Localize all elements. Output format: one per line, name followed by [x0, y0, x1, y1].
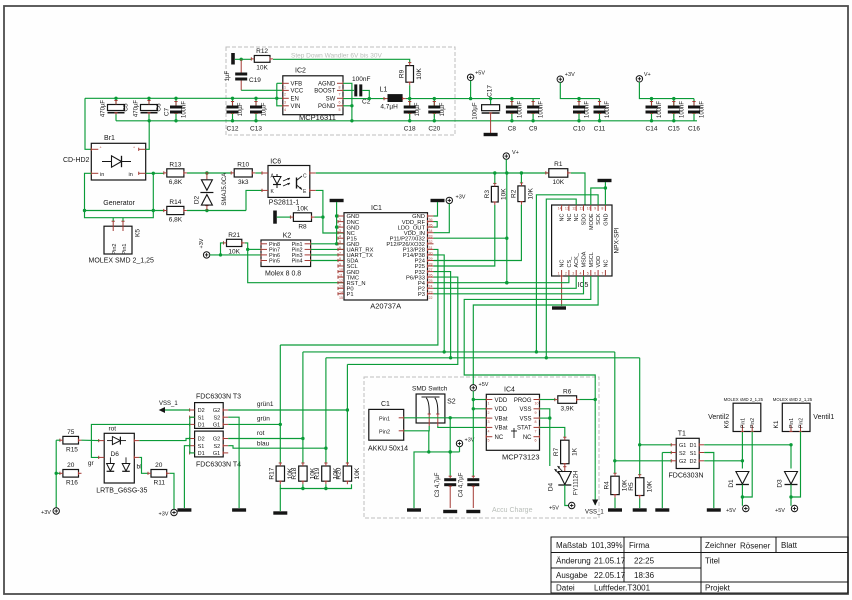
svg-text:VFB: VFB: [291, 82, 303, 88]
wire STAT to R7: [540, 427, 565, 437]
wire R11 to +3V: [170, 473, 174, 509]
svg-text:+: +: [100, 145, 102, 149]
resistor R9: [398, 63, 423, 86]
svg-text:6: 6: [535, 439, 537, 443]
svg-text:D2: D2: [198, 437, 205, 443]
switch S2 SMD Switch: [412, 386, 456, 427]
svg-text:FDC6303N T4: FDC6303N T4: [196, 462, 241, 469]
svg-text:FDC6303N T3: FDC6303N T3: [196, 394, 241, 401]
svg-text:R12: R12: [256, 48, 268, 55]
svg-text:D2: D2: [194, 195, 201, 204]
svg-text:100nF: 100nF: [352, 76, 370, 83]
svg-text:PGND: PGND: [318, 104, 336, 110]
wire VFB-EN-VIN tie: [277, 83, 283, 106]
svg-text:100nF: 100nF: [539, 101, 545, 118]
capacitor C11: [594, 99, 612, 133]
svg-text:Accu Charge: Accu Charge: [492, 507, 533, 514]
svg-text:C1: C1: [381, 401, 390, 408]
resistor R16: [60, 462, 82, 477]
svg-text:10K: 10K: [646, 480, 653, 492]
svg-text:in: in: [129, 172, 133, 178]
svg-text:Generator: Generator: [103, 200, 135, 207]
power V+ caps: [636, 72, 651, 82]
svg-text:R19: R19: [314, 467, 321, 479]
svg-text:GND: GND: [603, 213, 609, 225]
resistor R12: [251, 48, 273, 71]
wire to generator node: [152, 173, 154, 210]
svg-text:C12: C12: [227, 126, 239, 133]
svg-text:Step Down Wandler 6V bis 30V: Step Down Wandler 6V bis 30V: [291, 53, 382, 60]
ground T3 S2: [232, 508, 246, 511]
svg-text:D1: D1: [198, 423, 205, 429]
capacitor C3: [435, 472, 456, 508]
resistor R13: [164, 161, 187, 186]
wire VDD_RF LDO_OUT jumper: [434, 222, 438, 228]
wire V+ cap rail: [639, 82, 694, 100]
svg-text:+5V: +5V: [479, 382, 489, 388]
ground IC5 bottom: [552, 306, 566, 309]
wire P14 fan: [434, 255, 445, 352]
wire R4 gnd: [614, 498, 616, 508]
wire stub: [189, 416, 191, 418]
svg-text:CD-HD2: CD-HD2: [63, 157, 90, 164]
wire T3S1 T4D1: [190, 417, 195, 453]
svg-text:V+: V+: [644, 72, 651, 78]
wire R13 to R10: [187, 171, 231, 174]
connector K5 MOLEX SMD 2_1,25: [89, 221, 154, 264]
wire rot line: [228, 438, 303, 440]
wire C3 net: [449, 418, 452, 476]
pole symbol feedback node: [231, 53, 235, 65]
svg-text:Firma: Firma: [629, 541, 650, 550]
wire K2 pin4 to SDA: [311, 260, 344, 262]
svg-text:Ventil1: Ventil1: [813, 414, 834, 421]
svg-text:7: 7: [601, 272, 603, 276]
svg-text:SW: SW: [326, 97, 336, 103]
power +5V K6: [726, 505, 749, 514]
svg-text:1K: 1K: [572, 447, 579, 456]
wire R4 top: [614, 461, 616, 473]
svg-text:R8: R8: [298, 224, 307, 231]
wire R3 to P25: [434, 205, 495, 266]
svg-text:Pin2: Pin2: [379, 429, 390, 435]
node VSS_1 left arrow: [159, 401, 179, 413]
svg-text:Pin1: Pin1: [789, 418, 795, 428]
wire gate B vert: [638, 358, 641, 447]
section box Accu Charge: [364, 377, 599, 518]
capacitor C17: [473, 85, 500, 133]
svg-text:STAT: STAT: [517, 426, 532, 432]
svg-text:7: 7: [339, 92, 341, 96]
wire ctrl gruen1 vert: [346, 364, 349, 463]
svg-text:6: 6: [594, 272, 596, 276]
svg-text:3: 3: [572, 272, 574, 276]
IC IC4 MCP73123: [486, 387, 539, 462]
svg-text:D3: D3: [777, 479, 784, 488]
wire R12 to R9 top: [273, 59, 410, 62]
svg-text:VCC: VCC: [291, 89, 304, 95]
svg-text:R14: R14: [169, 199, 181, 206]
wire MSCL VSS_1 net: [464, 276, 597, 505]
wire S2 gnd b: [661, 453, 663, 509]
svg-text:6,8K: 6,8K: [169, 179, 183, 186]
svg-text:VDD: VDD: [495, 407, 508, 413]
bridge rectifier Br1 CD-HD2: [63, 135, 146, 180]
capacitor C16: [688, 99, 706, 133]
svg-text:C20: C20: [428, 126, 440, 133]
op-amp IC2 MCP16311: [283, 68, 343, 122]
ground T4 S1: [177, 508, 191, 511]
resistor R3: [484, 183, 508, 205]
svg-text:C15: C15: [668, 126, 680, 133]
svg-text:100nF: 100nF: [605, 101, 611, 118]
svg-text:A20737A: A20737A: [370, 302, 401, 311]
svg-text:10µF: 10µF: [238, 102, 244, 116]
svg-text:G1: G1: [213, 451, 220, 457]
resistor R20: [336, 463, 361, 484]
svg-text:6: 6: [339, 100, 341, 104]
svg-text:T1: T1: [678, 431, 686, 438]
svg-text:PS2811-1: PS2811-1: [269, 200, 300, 207]
svg-text:C3 4,7µF: C3 4,7µF: [435, 472, 441, 497]
wire gnd to pin8: [604, 182, 607, 205]
svg-text:+5V: +5V: [475, 70, 485, 76]
wire gnd stub3: [337, 226, 338, 228]
wire C2 to SW node: [362, 90, 369, 98]
svg-text:10K: 10K: [256, 64, 268, 71]
svg-text:14: 14: [558, 207, 562, 211]
svg-text:MODE: MODE: [589, 213, 595, 230]
wire K2 pin1 to IC1: [311, 242, 344, 245]
svg-text:VBat: VBat: [495, 426, 508, 432]
wire R10 to IC6 A: [255, 172, 262, 174]
svg-text:G2: G2: [679, 459, 686, 465]
svg-text:10K: 10K: [553, 179, 565, 186]
power +5V accu: [470, 382, 489, 391]
svg-text:C18: C18: [404, 126, 416, 133]
svg-text:C14: C14: [646, 126, 658, 133]
svg-text:C9: C9: [529, 126, 538, 133]
svg-text:4,7µH: 4,7µH: [380, 104, 398, 111]
svg-text:21.05.17: 21.05.17: [594, 557, 626, 566]
wire V+ net down: [505, 173, 508, 284]
svg-text:2: 2: [284, 92, 286, 96]
diode D1: [728, 472, 749, 488]
svg-text:100µF: 100µF: [473, 102, 479, 119]
svg-text:D4: D4: [548, 482, 555, 491]
wire +3V to VDD_IN: [434, 204, 450, 233]
transistor T3 body: [190, 403, 229, 429]
svg-text:+3V: +3V: [41, 510, 51, 516]
svg-text:VDD: VDD: [495, 398, 508, 404]
node VSS_1 arrow: [585, 500, 604, 516]
svg-text:R21: R21: [228, 232, 240, 239]
svg-text:CS_: CS_: [567, 256, 573, 268]
svg-text:FY1112H: FY1112H: [574, 471, 580, 495]
wire P11 row: [434, 237, 507, 239]
svg-text:grün1: grün1: [257, 401, 274, 408]
svg-text:+5V: +5V: [775, 508, 785, 514]
svg-text:C6: C6: [156, 103, 163, 112]
resistor R1: [546, 161, 571, 186]
wire gruen1 line: [228, 409, 347, 411]
svg-text:22.05.17: 22.05.17: [594, 571, 626, 580]
svg-text:VSS: VSS: [519, 407, 531, 413]
svg-text:100nF: 100nF: [585, 101, 591, 118]
svg-text:C19: C19: [249, 77, 261, 84]
connector K1 Ventil1: [773, 397, 835, 431]
svg-text:ACK_: ACK_: [574, 252, 580, 267]
resistor R17: [269, 463, 294, 484]
wire to IC6 K: [246, 190, 262, 210]
wire +5V output rail: [406, 97, 540, 100]
svg-text:Pin4: Pin4: [292, 259, 303, 265]
wire R2 to P24: [434, 205, 522, 261]
wire VDD1: [473, 399, 486, 401]
diode D3: [777, 472, 798, 488]
svg-text:1: 1: [558, 272, 560, 276]
wire R14 out: [187, 209, 246, 212]
wire gate line B: [326, 356, 640, 359]
power +3V IC1: [446, 195, 466, 204]
ground C17: [484, 133, 498, 136]
svg-text:12: 12: [572, 207, 576, 211]
svg-text:22: 22: [429, 296, 433, 300]
power V+ IC5: [503, 150, 519, 159]
capacitor C6: [134, 98, 163, 121]
svg-text:G1: G1: [679, 443, 686, 449]
svg-text:75: 75: [67, 429, 75, 436]
svg-text:R13: R13: [169, 161, 181, 168]
svg-text:Molex 8 0.8: Molex 8 0.8: [265, 271, 301, 278]
capacitor C18: [404, 99, 422, 133]
svg-text:S1: S1: [198, 415, 205, 421]
svg-text:8: 8: [535, 420, 537, 424]
svg-text:D2: D2: [689, 459, 696, 465]
wire R5 gnd: [639, 499, 641, 509]
svg-text:S1: S1: [690, 451, 697, 457]
wire R6 out: [580, 399, 596, 401]
wire battery minus to switch: [404, 426, 430, 431]
wire opto emitter to IC1: [316, 190, 344, 233]
wire VSS down: [540, 409, 552, 466]
svg-text:10µF: 10µF: [262, 102, 268, 116]
wire gnd stub1: [337, 215, 338, 217]
capacitor C4: [459, 411, 480, 508]
svg-text:9: 9: [535, 411, 537, 415]
resistor R11: [148, 462, 170, 477]
svg-text:SCK: SCK: [596, 213, 602, 225]
svg-text:V+: V+: [512, 150, 519, 156]
capacitor C9: [527, 99, 545, 133]
svg-text:11: 11: [580, 207, 584, 211]
svg-text:Titel: Titel: [705, 557, 720, 566]
svg-text:MCP73123: MCP73123: [502, 453, 540, 462]
svg-text:grün: grün: [257, 416, 270, 423]
wire BOOST to C2: [343, 89, 354, 91]
resistor R8: [290, 206, 314, 231]
svg-text:NC: NC: [560, 213, 566, 221]
capacitor C20: [428, 99, 446, 133]
ground IC5 top: [598, 179, 612, 182]
wire +5V stub: [470, 81, 472, 99]
svg-text:VDD: VDD: [596, 256, 602, 268]
wire R8 to opto node: [315, 216, 323, 218]
svg-text:K1: K1: [773, 420, 780, 428]
svg-text:C10: C10: [573, 126, 585, 133]
wire generator line: [85, 210, 164, 212]
svg-text:+3V: +3V: [199, 238, 205, 248]
svg-text:10: 10: [535, 402, 539, 406]
svg-text:MSDA: MSDA: [582, 251, 588, 267]
wire PGND stub: [343, 105, 352, 107]
svg-text:FDC6303N: FDC6303N: [669, 473, 704, 480]
svg-text:101,39%: 101,39%: [591, 541, 623, 550]
capacitor C15: [668, 99, 686, 133]
transistor T4 body: [190, 431, 229, 457]
wire T3 D1 to LED gr: [91, 424, 189, 457]
svg-text:Änderung: Änderung: [556, 557, 591, 566]
svg-text:Maßstab: Maßstab: [556, 541, 588, 550]
IC IC5 NPX-SPI: [552, 205, 621, 289]
capacitor C2: [352, 76, 371, 106]
power +5V: [467, 70, 485, 80]
wire R2 top: [520, 173, 522, 183]
wire stub R15: [56, 439, 60, 441]
svg-text:NC: NC: [560, 260, 566, 268]
wire D2 to K6: [704, 432, 744, 463]
wire switch to VBat2: [438, 426, 487, 427]
wire pin12 down: [546, 199, 576, 358]
svg-text:9: 9: [594, 207, 596, 211]
svg-text:NC: NC: [603, 260, 609, 268]
svg-text:K6: K6: [724, 420, 731, 428]
svg-text:470µF: 470µF: [134, 100, 140, 117]
svg-text:MOLEX sMD 2_1,25: MOLEX sMD 2_1,25: [724, 397, 764, 402]
ground IC1 right: [431, 199, 445, 202]
svg-text:100nF: 100nF: [679, 101, 685, 118]
svg-text:10K: 10K: [528, 187, 535, 199]
svg-text:MCP16311: MCP16311: [299, 113, 336, 122]
svg-text:2: 2: [488, 411, 490, 415]
svg-text:Pin2: Pin2: [750, 418, 756, 428]
svg-text:gr: gr: [88, 460, 95, 467]
svg-text:100nF: 100nF: [517, 101, 523, 118]
svg-text:C5: C5: [123, 103, 130, 112]
svg-text:VIN: VIN: [291, 104, 301, 110]
svg-text:4: 4: [488, 429, 490, 433]
svg-text:D1: D1: [198, 451, 205, 457]
svg-text:Pin5: Pin5: [269, 259, 280, 265]
resistor R6: [555, 388, 580, 412]
power +3V LED: [41, 508, 59, 516]
svg-text:Datei: Datei: [556, 584, 575, 593]
svg-text:C16: C16: [688, 126, 700, 133]
svg-text:AKKU 50x14: AKKU 50x14: [368, 446, 408, 453]
inductor L1: [380, 87, 406, 111]
svg-text:VSS_1: VSS_1: [585, 510, 604, 516]
svg-text:in: in: [100, 172, 104, 178]
wire D3 cathode: [789, 485, 792, 506]
ground IC1 left: [330, 199, 344, 202]
svg-text:MSCL: MSCL: [589, 252, 595, 267]
diode D2 SMAJ5.0CA: [194, 173, 229, 211]
wire K2 pin7 tap: [248, 248, 261, 250]
title block: [551, 537, 848, 593]
resistor R5: [628, 475, 653, 499]
svg-text:PROG: PROG: [514, 398, 532, 404]
svg-text:AGND: AGND: [318, 82, 336, 88]
power +3V R11: [159, 509, 178, 517]
wire R15 to LED: [82, 439, 99, 441]
svg-text:blau: blau: [257, 441, 270, 448]
svg-text:10K: 10K: [354, 467, 361, 479]
capacitor C12: [227, 98, 245, 132]
wire pole to R12: [235, 58, 251, 61]
svg-text:S2: S2: [447, 398, 456, 405]
capacitor C14: [646, 99, 664, 133]
power +5V D4: [549, 502, 575, 511]
resistor R4: [603, 473, 628, 497]
svg-text:7: 7: [535, 429, 537, 433]
svg-text:P1: P1: [347, 292, 354, 298]
svg-text:R3: R3: [484, 190, 491, 199]
svg-text:Ausgabe: Ausgabe: [556, 571, 588, 580]
svg-text:1: 1: [284, 85, 286, 89]
ground T1 S2: [655, 508, 669, 511]
svg-text:D2: D2: [198, 408, 205, 414]
svg-text:MOLEX sMD 2_1,25: MOLEX sMD 2_1,25: [773, 397, 813, 402]
svg-text:15: 15: [339, 296, 343, 300]
wire to D1: [741, 461, 743, 469]
wire bridge to rail: [146, 121, 150, 150]
svg-text:R6: R6: [563, 388, 572, 395]
svg-text:D1: D1: [689, 443, 696, 449]
svg-text:18:36: 18:36: [634, 571, 655, 580]
svg-text:3k3: 3k3: [238, 179, 249, 186]
svg-text:1µF: 1µF: [225, 70, 231, 81]
ground resistor bank: [273, 511, 287, 514]
resistor R2: [510, 183, 534, 205]
transistor T1 FDC6303N: [669, 431, 705, 480]
svg-text:R9: R9: [398, 69, 405, 78]
svg-text:G2: G2: [213, 437, 220, 443]
battery C1 AKKU 50x14: [368, 401, 408, 453]
wire generator loop: [83, 173, 155, 217]
ground battery: [407, 508, 421, 511]
wire gruen line: [228, 423, 280, 425]
svg-text:R2: R2: [510, 189, 517, 198]
svg-text:IC1: IC1: [371, 205, 382, 212]
wire VSS2: [540, 417, 550, 419]
svg-text:Luftfeder.T3001: Luftfeder.T3001: [594, 584, 651, 593]
svg-text:Pin1: Pin1: [122, 243, 128, 254]
svg-text:100nF: 100nF: [182, 101, 188, 118]
svg-text:S2: S2: [213, 415, 220, 421]
wire K2 pin2 to UART_RX: [311, 248, 344, 250]
svg-text:R16: R16: [66, 480, 78, 487]
wire blau line: [228, 446, 326, 449]
svg-text:2: 2: [565, 272, 567, 276]
svg-text:G2: G2: [213, 408, 220, 414]
svg-text:R15: R15: [66, 447, 78, 454]
wire P6 fan: [347, 277, 457, 364]
svg-text:Pin2: Pin2: [799, 418, 805, 428]
wire to G1: [640, 444, 672, 446]
wire ACK to P2: [434, 276, 577, 288]
svg-text:20: 20: [67, 462, 75, 469]
wire pole to R8: [277, 216, 291, 218]
